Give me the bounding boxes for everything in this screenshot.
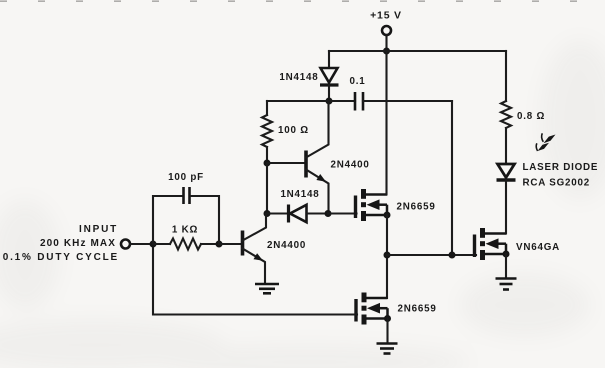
svg-text:2N6659: 2N6659: [398, 304, 437, 315]
wire: mid rail left segment: [267, 100, 355, 102]
input terminal: [121, 240, 130, 249]
svg-text:RCA SG2002: RCA SG2002: [523, 178, 591, 189]
resistor R2 1K: [170, 239, 201, 250]
svg-text:1N4148: 1N4148: [280, 189, 319, 200]
wire: mid rail to R1 top: [266, 101, 268, 115]
light emission arrow: [536, 133, 555, 151]
wire: M3 source down to ground: [505, 254, 507, 278]
svg-text:100 pF: 100 pF: [168, 172, 204, 183]
wire: base node to Q2 base: [267, 162, 306, 164]
svg-text:+15 V: +15 V: [370, 10, 402, 22]
input labels: [3, 224, 119, 263]
wire: gate rail to VN64GA gate: [387, 254, 476, 256]
svg-text:LASER DIODE: LASER DIODE: [523, 162, 599, 173]
svg-text:1 KΩ: 1 KΩ: [172, 225, 198, 236]
MOSFET M2 2N6659: [356, 293, 388, 325]
wire: D2 cathode to M1 gate: [328, 212, 357, 214]
junction: D1 cathode / Q2 collector node: [326, 98, 333, 105]
capacitor C1: [355, 92, 363, 111]
junction: D2 anode / Q1 collector node: [264, 210, 271, 217]
svg-text:2N6659: 2N6659: [397, 202, 436, 213]
svg-text:100 Ω: 100 Ω: [278, 125, 309, 136]
svg-text:0.1% DUTY CYCLE: 0.1% DUTY CYCLE: [3, 252, 119, 263]
svg-text:0.1: 0.1: [349, 76, 365, 87]
wire: M1 source down to M2 drain: [386, 215, 388, 298]
wire: M1 drain up to top rail: [385, 51, 387, 195]
diode D1 1N4148 (vertical): [320, 68, 339, 101]
wire: feedback from input node to M2 gate: [153, 244, 357, 315]
ground G3 (M2 source): [377, 344, 398, 354]
svg-text:INPUT: INPUT: [79, 224, 118, 235]
junction: input node: [150, 241, 157, 248]
wire: top rail down to D1 anode: [328, 51, 330, 68]
wire: top rail right end down to R3: [505, 51, 507, 101]
wire: top rail: [329, 50, 506, 52]
wire: R1 bottom to Q2 base node: [266, 147, 268, 163]
svg-text:0.8 Ω: 0.8 Ω: [517, 111, 545, 122]
wire: laser diode to M3 drain: [505, 180, 507, 234]
capacitor C2 100 pF: [184, 187, 190, 204]
junction: M2 source dot: [384, 315, 391, 322]
wire: C2 left leg: [153, 196, 182, 244]
MOSFET M1 2N6659: [356, 189, 388, 221]
wire: Q2 base node down to D2 anode node: [266, 163, 268, 214]
junction: Q1 base node: [216, 241, 223, 248]
ground G1 (Q1 emitter): [255, 284, 279, 293]
diode D2 1N4148 (horizontal): [267, 205, 328, 223]
svg-text:VN64GA: VN64GA: [516, 242, 560, 253]
wire: input node to R2: [153, 243, 170, 245]
wire: R3 to laser diode: [505, 128, 507, 164]
ground G2 (M3 source): [496, 279, 517, 290]
wire: supply terminal to top rail: [385, 35, 387, 51]
junction: Q2 base node: [264, 160, 271, 167]
wire: M2 source down to ground: [386, 319, 388, 344]
junction: supply on top rail: [383, 48, 390, 55]
junction: C1 branch joins gate rail: [449, 252, 456, 259]
svg-text:2N4400: 2N4400: [267, 240, 306, 251]
wire: R2 to Q1 base node: [201, 243, 219, 245]
svg-text:200 KHz MAX: 200 KHz MAX: [40, 238, 116, 249]
junction: D2 cathode / M1 gate node: [325, 210, 332, 217]
transistor Q1 2N4400: [243, 214, 267, 283]
wire: Q1 base node to Q1 base: [219, 243, 243, 245]
transistor Q2 2N4400: [306, 101, 329, 214]
laser diode D3 RCA SG2002: [497, 164, 516, 180]
resistor R1 100 ohm: [262, 115, 272, 147]
resistor R3 0.8 ohm: [501, 101, 511, 128]
svg-text:2N4400: 2N4400: [331, 160, 370, 171]
junction: M3 source dot: [503, 251, 510, 258]
wire: mid rail right segment: [363, 100, 452, 102]
svg-text:1N4148: 1N4148: [279, 72, 318, 83]
MOSFET M3 VN64GA: [475, 228, 507, 260]
wire: C2 right leg: [191, 196, 219, 244]
+15V supply terminal: [382, 26, 391, 35]
wire: input terminal to input node: [130, 243, 153, 245]
wire: C1 branch down to gate rail: [451, 101, 453, 255]
junction: M1 source dot: [384, 212, 391, 219]
junction: gate rail tap on main line: [384, 252, 391, 259]
